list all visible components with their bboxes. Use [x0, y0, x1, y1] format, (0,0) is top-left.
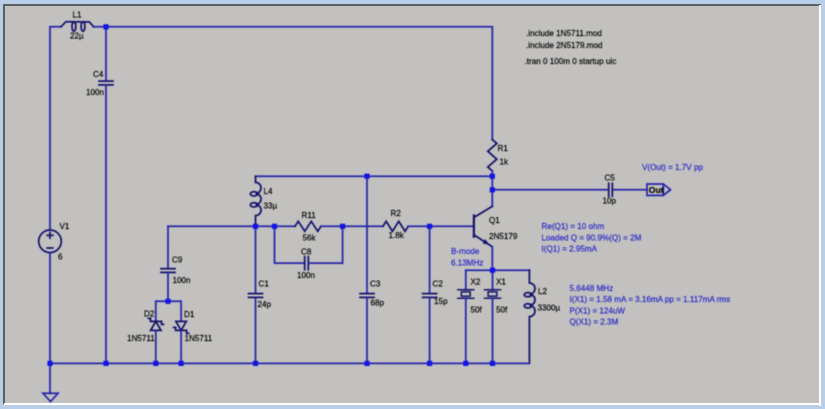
wire C1 drop: [255, 226, 257, 293]
wire C4 bottom: [105, 86, 107, 364]
junction ground C2: [427, 361, 432, 366]
svg-text:33µ: 33µ: [264, 202, 278, 211]
svg-text:100n: 100n: [297, 271, 315, 280]
wire ground bus: [50, 362, 529, 364]
svg-text:Out: Out: [649, 185, 664, 195]
capacitor C3: [360, 293, 374, 295]
junction ground V1: [47, 361, 52, 366]
junction L4/C1 mid bus: [253, 224, 258, 229]
wire C9 drop: [167, 226, 169, 268]
svg-text:.include 1N5711.mod: .include 1N5711.mod: [526, 29, 602, 38]
junction emitter node / X1: [490, 268, 495, 273]
svg-text:C8: C8: [301, 248, 312, 257]
svg-text:C1: C1: [259, 280, 270, 289]
svg-text:R1: R1: [498, 144, 509, 153]
diode D2: [151, 321, 161, 330]
svg-text:R2: R2: [391, 209, 402, 218]
svg-text:C5: C5: [605, 174, 616, 183]
transistor Q1: [474, 206, 492, 247]
svg-text:L4: L4: [264, 187, 274, 196]
svg-text:Loaded Q = 90.9%(Q) = 2M: Loaded Q = 90.9%(Q) = 2M: [542, 233, 642, 242]
svg-text:50f: 50f: [471, 306, 483, 315]
wire C8 branch right: [309, 226, 343, 263]
svg-text:I(X1) = 1.58 mA = 3.16mA pp: I(X1) = 1.58 mA = 3.16mA pp = 1.117mA rm…: [570, 295, 731, 304]
wire C9 to diode tee: [167, 273, 169, 301]
svg-text:1.8k: 1.8k: [389, 231, 405, 240]
crystal X2: [458, 290, 474, 298]
svg-text:B-mode: B-mode: [451, 247, 480, 256]
diode D1: [176, 321, 186, 330]
wire D1 bottom lead: [180, 331, 182, 364]
svg-text:15p: 15p: [434, 297, 448, 306]
wire X2 top lead: [465, 270, 467, 290]
svg-text:10p: 10p: [603, 197, 617, 206]
capacitor C9: [161, 268, 175, 270]
wire mid bus segment 1: [168, 225, 295, 227]
svg-text:X2: X2: [471, 278, 481, 287]
wire X1 top lead: [492, 270, 494, 290]
svg-text:Q1: Q1: [489, 216, 500, 225]
svg-text:22µ: 22µ: [70, 31, 84, 40]
svg-text:Q(X1) = 2.3M: Q(X1) = 2.3M: [570, 318, 619, 327]
svg-text:50f: 50f: [496, 306, 508, 315]
svg-text:C3: C3: [370, 280, 381, 289]
wire out line: [492, 189, 607, 191]
port Out: [647, 184, 671, 195]
svg-text:100n: 100n: [86, 88, 104, 97]
svg-text:X1: X1: [496, 278, 506, 287]
svg-text:1N5711: 1N5711: [185, 334, 213, 343]
wire D2 bottom lead: [155, 331, 157, 364]
junction ground X1: [490, 361, 495, 366]
wire top rail: [94, 27, 493, 140]
capacitor C2: [423, 293, 437, 295]
junction collector / out line: [490, 187, 495, 192]
svg-text:100n: 100n: [173, 276, 191, 285]
wire emitter node horizontal: [466, 269, 530, 271]
wire X1 bottom lead: [492, 298, 494, 363]
wire emitter down: [491, 247, 493, 270]
wire mid bus segment 3 (to Q1 base): [408, 225, 474, 227]
svg-text:P(X1) = 124uW: P(X1) = 124uW: [570, 306, 626, 315]
svg-text:5.6448 MHz: 5.6448 MHz: [570, 284, 614, 293]
svg-text:1N5711: 1N5711: [127, 334, 155, 343]
inductor L1: [61, 22, 94, 27]
wire D1 top lead: [180, 301, 182, 321]
wire top bus (L4 to R1 column): [256, 175, 493, 177]
wire left rail top: [50, 27, 61, 230]
capacitor C8: [304, 257, 306, 270]
voltage source V1: [39, 230, 62, 253]
svg-text:6: 6: [58, 253, 63, 262]
junction C8 right: [340, 224, 345, 229]
wire C1 bottom: [255, 298, 257, 363]
junction ground D2: [153, 361, 158, 366]
wire C4 drop: [105, 27, 107, 81]
svg-text:6.13MHz: 6.13MHz: [451, 259, 483, 268]
junction ground C4: [103, 361, 108, 366]
wire mid bus segment 2: [321, 225, 383, 227]
svg-text:3300µ: 3300µ: [538, 304, 561, 313]
resistor R11: [295, 221, 321, 231]
junction ground D1: [179, 361, 184, 366]
wire C3 bottom: [366, 298, 368, 363]
resistor R2: [383, 221, 408, 231]
wire R1 bottom to collector: [491, 171, 493, 206]
inductor L4: [256, 176, 262, 226]
wire C3 drop: [366, 176, 368, 293]
svg-text:R11: R11: [302, 211, 317, 220]
svg-text:Re(Q1) = 10 ohm: Re(Q1) = 10 ohm: [542, 222, 605, 231]
junction ground X2: [463, 361, 468, 366]
svg-text:D2: D2: [144, 310, 155, 319]
svg-text:L2: L2: [538, 287, 548, 296]
junction C3 top bus: [364, 174, 369, 179]
svg-text:56k: 56k: [303, 234, 317, 243]
svg-text:C4: C4: [93, 70, 104, 79]
junction ground C3: [364, 361, 369, 366]
svg-text:V1: V1: [60, 222, 70, 231]
junction C8 left: [272, 224, 277, 229]
wire V1 bottom: [49, 253, 51, 364]
svg-text:.include 2N5179.mod: .include 2N5179.mod: [526, 41, 603, 50]
capacitor C5: [608, 183, 610, 196]
wire C5 to Out port: [614, 189, 647, 191]
junction C2 mid bus: [427, 224, 432, 229]
wire diode tee: [156, 300, 181, 302]
capacitor C4: [99, 80, 113, 82]
wire C2 bottom: [429, 298, 431, 363]
resistor R1: [488, 140, 497, 171]
crystal X1: [485, 290, 501, 298]
wire X2 bottom lead: [465, 298, 467, 363]
svg-text:2N5179: 2N5179: [489, 232, 518, 241]
junction R1 bottom / top bus: [490, 174, 495, 179]
svg-text:.tran 0 100m 0 startup uic: .tran 0 100m 0 startup uic: [525, 57, 617, 66]
svg-text:1k: 1k: [500, 158, 510, 167]
wire C8 branch: [275, 226, 305, 263]
svg-text:L1: L1: [73, 11, 83, 20]
svg-text:V(Out) = 1.7V pp: V(Out) = 1.7V pp: [642, 163, 703, 172]
junction C9 / diode tee: [165, 299, 170, 304]
svg-text:D1: D1: [184, 310, 195, 319]
svg-text:68p: 68p: [371, 299, 385, 308]
svg-text:C9: C9: [172, 256, 183, 265]
svg-text:C2: C2: [433, 280, 444, 289]
wire C2 drop: [429, 226, 431, 293]
svg-text:24p: 24p: [258, 300, 272, 309]
junction L1/C4 top rail: [103, 24, 108, 29]
capacitor C1: [249, 293, 263, 295]
junction ground C1: [253, 361, 258, 366]
wire D2 top lead: [155, 301, 157, 321]
svg-text:I(Q1) = 2.95mA: I(Q1) = 2.95mA: [542, 245, 598, 254]
inductor L2: [529, 270, 535, 363]
ground: [43, 363, 58, 401]
